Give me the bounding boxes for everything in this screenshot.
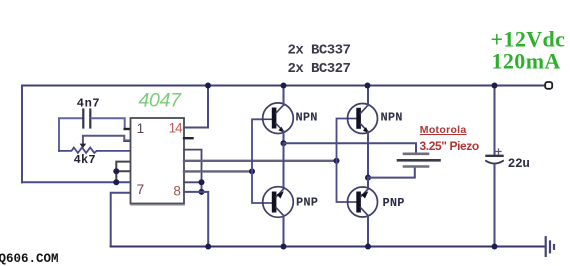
wire pin4-5-6 tie vertical: [116, 162, 130, 183]
wire pin7 to ground rail: [111, 193, 131, 247]
svg-text:1: 1: [137, 121, 145, 136]
capacitor C2 bottom wire: [494, 165, 496, 247]
wire pin8 to ground rail: [184, 192, 208, 247]
transistor Q4 PNP: [348, 187, 378, 217]
wire Q2 emitter down to right output: [367, 132, 369, 178]
plus sign C2: [496, 149, 501, 154]
wire to pin6: [22, 181, 131, 183]
terminal +12V input: [545, 82, 552, 89]
svg-text:3.25" Piezo: 3.25" Piezo: [420, 139, 479, 153]
node left output: [281, 140, 287, 146]
svg-text:4k7: 4k7: [74, 153, 96, 167]
capacitor C1 4n7 plates: [82, 110, 84, 128]
wire pin14 to rail: [184, 86, 208, 128]
svg-text:Motorola: Motorola: [420, 124, 467, 136]
svg-text:22u: 22u: [508, 157, 530, 171]
node rail x368: [365, 83, 371, 89]
svg-text:4n7: 4n7: [77, 96, 100, 110]
svg-text:7: 7: [137, 182, 145, 197]
piezo transducer plates: [404, 153, 428, 156]
wire bottom ground rail: [111, 246, 545, 248]
wire pin10 to left pair bases: [184, 170, 252, 172]
wire Q3 collector to ground rail: [283, 216, 285, 247]
svg-text:14: 14: [169, 120, 184, 135]
wire pin11 to right pair bases: [184, 160, 337, 162]
capacitor C1 4n7 left wire: [59, 118, 82, 151]
wire Q2 collector to rail: [367, 86, 369, 106]
node rail x283: [281, 83, 287, 89]
wire pin2 stub: [125, 140, 131, 142]
node pin6 junction: [113, 179, 119, 185]
wire Q4 collector to ground rail: [367, 216, 369, 247]
IC U1 4047 body: [131, 118, 185, 204]
wire right base vertical: [337, 119, 349, 203]
node rail x494: [492, 83, 498, 89]
svg-text:4047: 4047: [139, 90, 183, 112]
wire pin9 stub: [184, 181, 202, 183]
wire left output down to Q3: [283, 143, 285, 188]
wiper arrow of R1: [80, 144, 87, 149]
node pin8: [199, 189, 205, 195]
svg-text:PNP: PNP: [296, 196, 318, 210]
transistor Q1 NPN: [263, 103, 294, 134]
wire top +12V rail: [22, 85, 545, 87]
resistor R1 4k7: [59, 148, 131, 153]
wire Q1 collector to rail: [283, 86, 285, 106]
wire C1 to pin1: [92, 118, 131, 129]
node left base: [249, 168, 255, 174]
svg-text:Q606.COM: Q606.COM: [0, 252, 59, 266]
capacitor C2 22u top wire: [494, 86, 496, 155]
svg-text:120mA: 120mA: [492, 48, 561, 73]
pin 13 stub: [184, 137, 193, 139]
node ground rail x208: [205, 244, 211, 250]
node ground x283: [281, 244, 287, 250]
node ground x368: [365, 244, 371, 250]
svg-text:NPN: NPN: [381, 111, 403, 125]
wire pin2 to wiper: [83, 136, 131, 145]
wire pin1 stub: [125, 128, 131, 130]
wire left base vertical: [252, 119, 263, 203]
node rail x208: [205, 83, 211, 89]
wire right output to piezo bottom: [368, 167, 415, 178]
svg-text:8: 8: [173, 184, 181, 199]
transistor Q3 PNP: [263, 187, 294, 218]
IC U1 bottom edge shading: [131, 204, 184, 206]
svg-text:NPN: NPN: [296, 111, 318, 125]
wire left output to piezo top: [284, 143, 417, 153]
node right base: [334, 158, 340, 164]
node pin9: [199, 179, 205, 185]
svg-text:2x BC337: 2x BC337: [288, 43, 351, 59]
wire left vertical from rail: [21, 86, 23, 183]
wire Q4 top to right output: [367, 178, 369, 189]
wire pin12 down to pin9/8: [184, 150, 202, 192]
wire Q1 emitter down: [283, 132, 285, 144]
node right output: [365, 175, 371, 181]
svg-text:PNP: PNP: [383, 196, 405, 210]
node pin5 junction: [113, 168, 119, 174]
transistor Q2 NPN: [348, 104, 378, 134]
ground symbol: [545, 237, 547, 256]
node ground x494: [492, 244, 498, 250]
svg-text:2x BC327: 2x BC327: [288, 61, 351, 77]
capacitor C2 22u plates: [487, 155, 503, 157]
wire pin5 stub: [116, 170, 130, 172]
